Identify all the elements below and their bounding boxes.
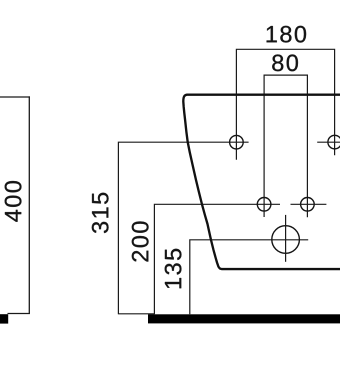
side view bottom edge — [8, 313, 30, 315]
dim line 80 — [264, 75, 307, 217]
drain hole crosshair vertical — [285, 215, 287, 262]
drain hole large — [272, 226, 300, 254]
dim text 80 — [272, 55, 298, 72]
hole mid-right crosshair horizontal — [291, 203, 327, 205]
dim text 135 — [165, 249, 182, 288]
hole mid-left — [257, 198, 271, 212]
fixture outline (back view) — [183, 95, 340, 269]
dim line 315 — [118, 142, 248, 314]
hole top-right crosshair horizontal — [317, 141, 340, 143]
dim text 200 — [132, 221, 149, 261]
dim text 315 — [92, 193, 109, 233]
hole top-left — [230, 135, 244, 149]
side view front edge — [28, 96, 30, 314]
dim line 135 — [190, 240, 308, 314]
floor reference line — [118, 313, 154, 315]
dim line 200 — [154, 204, 280, 314]
right floor bar — [148, 314, 340, 323]
dim text 400 — [5, 181, 22, 222]
dim text 180 — [267, 26, 306, 43]
dim line 180 — [236, 49, 334, 160]
side view top edge — [0, 96, 30, 98]
hole top-right — [328, 135, 340, 149]
left floor bar — [0, 314, 8, 323]
hole mid-right — [301, 198, 315, 212]
